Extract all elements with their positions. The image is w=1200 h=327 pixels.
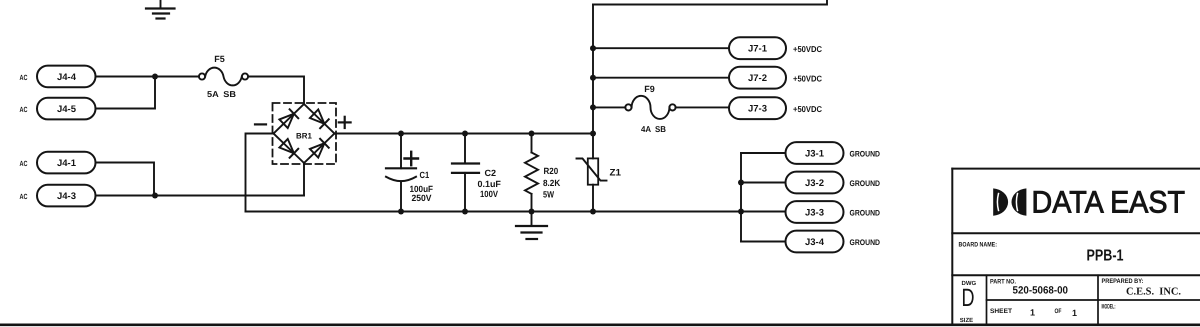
ground (below R20) — [516, 212, 547, 240]
svg-text:1: 1 — [1030, 308, 1035, 318]
svg-text:Z1: Z1 — [610, 168, 622, 179]
node J7-2 tap — [590, 75, 596, 81]
node J3-2 tap — [738, 180, 744, 186]
node C1 bottom — [398, 209, 404, 215]
connector J3-4 — [786, 231, 844, 253]
svg-text:BR1: BR1 — [296, 132, 312, 141]
wire to J7-2 — [593, 77, 729, 79]
svg-text:PREPARED BY:: PREPARED BY: — [1102, 278, 1144, 285]
svg-text:J3-3: J3-3 — [805, 208, 824, 219]
wire stub J3-3 — [741, 211, 786, 213]
connector J3-1 — [786, 142, 844, 164]
svg-text:J3-4: J3-4 — [805, 237, 825, 248]
svg-text:520-5068-00: 520-5068-00 — [1013, 285, 1069, 297]
svg-text:J4-5: J4-5 — [57, 104, 77, 115]
connector J3-2 — [786, 172, 844, 194]
capacitor C1 — [386, 134, 433, 212]
sheet bottom border — [0, 323, 1200, 326]
wire bridge minus leg — [246, 134, 274, 212]
wire stub J3-1 — [741, 152, 786, 154]
svg-text:AC: AC — [20, 192, 28, 201]
wire +50V feed vertical — [592, 5, 594, 134]
node C1 top — [398, 131, 404, 137]
svg-text:GROUND: GROUND — [850, 150, 881, 159]
fuse F5 — [199, 54, 248, 99]
wire J3 tree vertical — [740, 153, 742, 242]
bridge rectifier BR1 — [273, 103, 337, 164]
wire F5 to bridge top — [248, 77, 304, 105]
svg-text:+50VDC: +50VDC — [793, 104, 822, 114]
wire ground rail — [246, 211, 742, 213]
ground (top-left chassis ground) — [146, 0, 175, 19]
svg-text:J7-3: J7-3 — [748, 104, 767, 115]
node C2 top — [462, 131, 468, 137]
connector J4-1 — [37, 152, 96, 174]
node C2 bottom — [462, 209, 468, 215]
svg-text:MODEL:: MODEL: — [1102, 303, 1116, 310]
svg-text:SIZE: SIZE — [960, 317, 973, 324]
svg-text:D: D — [962, 284, 975, 312]
resistor R20 — [525, 134, 561, 212]
wire to fuse F9 — [593, 106, 625, 108]
wire +DC rail — [335, 133, 594, 135]
svg-text:C2: C2 — [485, 168, 497, 178]
wire F9 to J7-3 — [676, 106, 729, 108]
wire J4-1 down leg — [96, 163, 155, 196]
svg-text:1: 1 — [1072, 308, 1077, 318]
svg-text:J3-2: J3-2 — [805, 178, 824, 189]
fuse F9 — [625, 84, 675, 134]
svg-text:AC: AC — [20, 159, 28, 168]
connector J7-2 — [729, 67, 786, 89]
varistor Z1 — [577, 134, 622, 212]
connector J7-3 — [729, 97, 786, 119]
svg-text:AC: AC — [20, 105, 28, 114]
wire stub J3-4 — [741, 241, 786, 243]
label plus (BR1) — [339, 117, 351, 128]
svg-text:DATA EAST: DATA EAST — [1032, 185, 1186, 220]
svg-text:5A SB: 5A SB — [207, 89, 236, 99]
svg-text:4A SB: 4A SB — [641, 124, 666, 134]
node J7-1 tap — [590, 45, 596, 51]
wire J4-5 up to node — [96, 77, 156, 109]
svg-text:+50VDC: +50VDC — [793, 44, 822, 54]
svg-text:SHEET: SHEET — [990, 308, 1012, 315]
node R20 bottom — [529, 209, 535, 215]
svg-text:J7-1: J7-1 — [748, 44, 768, 55]
connector J4-4 — [37, 66, 96, 88]
node Z1 top — [590, 131, 596, 137]
node Z1 bottom — [590, 209, 596, 215]
Data East logo mark — [993, 188, 1026, 215]
svg-text:PPB-1: PPB-1 — [1087, 248, 1124, 265]
connector J4-3 — [37, 185, 96, 207]
wire top run to sheet edge — [593, 0, 827, 5]
svg-text:AC: AC — [20, 73, 28, 82]
node R20 top — [529, 131, 535, 137]
svg-text:GROUND: GROUND — [850, 209, 881, 218]
capacitor C2 — [452, 134, 501, 212]
svg-text:0.1uF: 0.1uF — [478, 179, 502, 189]
wire J4-4 to fuse F5 — [96, 76, 200, 78]
svg-text:+50VDC: +50VDC — [793, 74, 822, 84]
svg-text:GROUND: GROUND — [850, 238, 881, 247]
wire to J7-1 — [593, 47, 729, 49]
svg-text:J4-1: J4-1 — [57, 158, 77, 169]
svg-text:F5: F5 — [214, 54, 225, 64]
svg-text:F9: F9 — [644, 84, 655, 94]
node junction J4-1/J4-3 — [152, 193, 158, 199]
node J3 rail junction — [738, 209, 744, 215]
label minus (BR1) — [255, 123, 266, 125]
svg-text:J4-4: J4-4 — [57, 72, 77, 83]
svg-text:R20: R20 — [544, 166, 559, 176]
svg-text:250V: 250V — [412, 193, 432, 203]
svg-text:J3-1: J3-1 — [805, 149, 825, 160]
svg-text:5W: 5W — [543, 189, 554, 199]
svg-text:8.2K: 8.2K — [543, 178, 561, 188]
svg-text:J4-3: J4-3 — [57, 191, 76, 202]
svg-text:BOARD NAME:: BOARD NAME: — [959, 241, 998, 248]
svg-text:OF: OF — [1055, 308, 1062, 315]
wire J4-3 AC run to bridge — [96, 195, 305, 197]
connector J7-1 — [729, 37, 786, 59]
wire stub J3-2 — [741, 182, 786, 184]
connector J4-5 — [37, 98, 96, 120]
connector J3-3 — [786, 201, 844, 223]
svg-text:C.E.S. INC.: C.E.S. INC. — [1126, 287, 1181, 298]
node F9 tap — [590, 104, 596, 110]
svg-text:GROUND: GROUND — [850, 179, 881, 188]
node junction J4-4/J4-5 — [152, 74, 158, 80]
svg-text:100V: 100V — [480, 189, 498, 199]
svg-text:J7-2: J7-2 — [748, 73, 767, 84]
svg-text:C1: C1 — [420, 170, 430, 180]
wire bridge bottom AC leg — [303, 163, 305, 196]
title block frame — [952, 169, 1200, 325]
